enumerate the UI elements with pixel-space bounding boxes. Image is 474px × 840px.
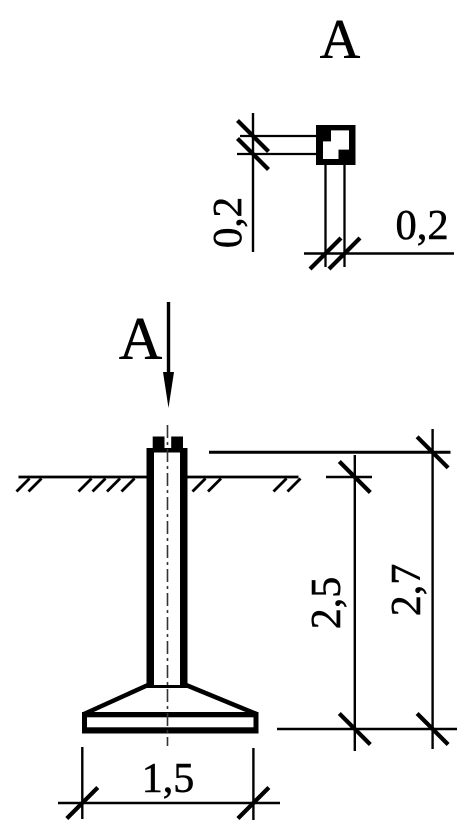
extension line (upper wall, left of section) xyxy=(240,135,317,137)
dimension line 0,2 (vertical, left of section) xyxy=(252,113,254,252)
dimension line 2,7 (vertical) xyxy=(431,429,433,749)
svg-text:1,5: 1,5 xyxy=(142,756,195,802)
tick mark (top of 2,5) xyxy=(339,462,370,493)
value label 0,2 (rotated, left) xyxy=(204,197,250,248)
svg-text:0,2: 0,2 xyxy=(204,197,250,248)
extension line (left wall, below section) xyxy=(324,165,326,267)
tick mark (left of 1,5) xyxy=(67,788,98,819)
base plate xyxy=(82,712,259,734)
value label 2,7 (rotated) xyxy=(384,564,430,617)
tick mark (bottom of 2,5) xyxy=(339,714,370,745)
dimension line 0,2 (horizontal, below section) xyxy=(304,252,454,254)
tick mark (top of 2,7) xyxy=(417,437,448,468)
dimension line 2,5 (vertical) xyxy=(354,455,356,751)
extension line (base bottom, to dimensions) xyxy=(277,728,457,731)
value label 2,5 (rotated) xyxy=(304,577,350,630)
tick mark (left, bottom dimension) xyxy=(310,238,341,269)
ground hatch marks xyxy=(17,479,301,492)
svg-text:2,7: 2,7 xyxy=(384,564,430,617)
tick mark (bottom, left dimension) xyxy=(238,139,269,170)
value label 0,2 (horizontal) xyxy=(395,202,448,249)
footing trapezoid (right slope) xyxy=(186,685,257,714)
ground line (left of column) xyxy=(19,476,147,479)
section arrow label A xyxy=(119,306,162,372)
extension line (base left corner, down) xyxy=(81,747,83,819)
extension line (column top, to 2,7 dimension) xyxy=(209,451,451,454)
centerline of column (dash-dot) xyxy=(167,425,169,746)
anchor bolt (right) xyxy=(171,437,183,449)
footing trapezoid (top chord) xyxy=(147,685,188,688)
section label A (top view title) xyxy=(320,9,361,71)
column cross-section (square tube with stepped hole) xyxy=(316,125,356,165)
tick mark (bottom of 2,7) xyxy=(417,714,448,745)
extension line (ground level, to 2,5 dimension) xyxy=(326,476,372,479)
svg-text:A: A xyxy=(320,9,361,71)
svg-text:A: A xyxy=(119,306,162,372)
footing trapezoid (left slope) xyxy=(84,685,148,714)
anchor bolt (left) xyxy=(153,437,165,449)
dimension line 1,5 (horizontal) xyxy=(58,802,280,805)
value label 1,5 xyxy=(142,756,195,802)
svg-text:2,5: 2,5 xyxy=(304,577,350,630)
extension line (base right corner, down) xyxy=(252,748,254,820)
section cutting arrow (downward) xyxy=(163,302,174,408)
tick mark (top, left dimension) xyxy=(238,121,269,152)
column shaft xyxy=(147,448,188,687)
ground line (right of column) xyxy=(188,476,299,479)
tick mark (right, bottom dimension) xyxy=(329,238,360,269)
extension line (lower wall, left of section) xyxy=(237,153,317,155)
svg-text:0,2: 0,2 xyxy=(395,202,448,249)
extension line (right wall, below section) xyxy=(343,165,345,267)
tick mark (right of 1,5) xyxy=(238,788,269,819)
